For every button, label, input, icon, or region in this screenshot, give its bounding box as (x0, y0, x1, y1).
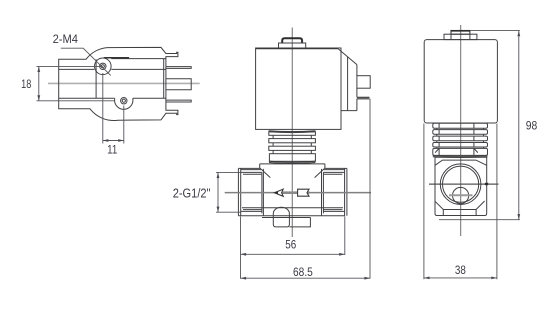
dimension 18 extension lines (37, 66, 115, 100)
interior body line (242, 207, 343, 209)
dimension 38 extension lines (424, 124, 497, 280)
gasket under coil (269, 131, 316, 133)
fin gap 3 (273, 150, 311, 153)
interior edge line upper (111, 58, 166, 60)
left port face (238, 168, 240, 215)
fin gap verticals 2 (437, 134, 484, 136)
body seam verticals (263, 169, 321, 216)
screw M4 no.1 (100, 63, 106, 69)
dimension 56 line (241, 253, 345, 255)
coil body (256, 48, 341, 129)
svg-text:2-M4: 2-M4 (53, 32, 79, 46)
dimension 68.5 extension line right (369, 99, 371, 279)
bottom chamfer trapezoid (435, 201, 485, 210)
svg-text:18: 18 (21, 77, 31, 91)
fin row 3 (433, 136, 488, 141)
manual override knob (282, 38, 302, 43)
valve body top edge (260, 164, 325, 169)
right port top double line (324, 168, 347, 169)
bottom bracket (289, 218, 310, 227)
port circle inner (443, 166, 479, 202)
dimension 11 line (103, 140, 124, 142)
dimension 2-G1/2 line (217, 172, 219, 212)
connector pin B (earth) (166, 79, 191, 90)
coil body (side) (424, 40, 497, 123)
cap knob (451, 31, 470, 35)
interior edge line lower (59, 97, 166, 99)
fin gap 1 (273, 135, 311, 138)
dimension 38 line (424, 277, 497, 279)
svg-text:68.5: 68.5 (293, 265, 313, 279)
centerline horizontal (48, 82, 200, 84)
dimension 18 line (38, 66, 40, 100)
connector right face (341, 65, 357, 111)
DIN connector chamfer roof (338, 49, 357, 65)
armature fin 2 (269, 139, 316, 143)
horizontal centerline (225, 192, 371, 194)
screw boss 2 (semicircular pocket) (115, 98, 133, 109)
valve body (side) (435, 157, 487, 215)
fin row 2 (433, 130, 488, 135)
fin row 4 (433, 143, 488, 148)
dimension 11 extension lines (103, 73, 124, 144)
armature fin 1 (269, 132, 316, 136)
gasket above body (269, 161, 315, 163)
bottom plug dome (273, 207, 289, 227)
body bottom second line (262, 217, 310, 219)
interior vertical edge (95, 59, 97, 98)
vertical centerline (460, 25, 462, 236)
left port top double line (238, 168, 261, 169)
svg-text:98: 98 (526, 119, 538, 133)
fin gap verticals 3 (437, 141, 484, 143)
right port thread lines (323, 172, 344, 211)
fin gap verticals 4 (437, 147, 484, 148)
port circle outer (440, 164, 481, 205)
interior edge line mid (59, 68, 166, 70)
fin gap 2 (273, 143, 311, 146)
connector pin C (166, 100, 191, 102)
fin row 1 (433, 123, 488, 128)
right port face (345, 168, 347, 215)
body bottom edge (238, 215, 345, 217)
horizontal centerline (429, 183, 499, 185)
dimension 2-G1/2 extension lines (216, 172, 241, 212)
dimension 98 line (518, 31, 520, 220)
hex nut row (433, 148, 488, 155)
knob flange (279, 43, 306, 48)
svg-text:56: 56 (285, 238, 296, 252)
cap flange (444, 34, 477, 39)
pilot hole circle (453, 187, 469, 203)
dimension 98 extension lines (439, 31, 520, 220)
coil top edge thick (256, 48, 339, 50)
coil housing outline (59, 47, 178, 120)
gasket wavy line (433, 156, 488, 158)
leader line 2-M4 (61, 48, 111, 75)
flow arrow shaft (279, 191, 310, 194)
svg-text:2-G1/2": 2-G1/2" (173, 186, 211, 200)
armature fin 3 (269, 146, 316, 150)
flow arrow solid tip (274, 191, 278, 194)
port depth verticals (262, 172, 324, 213)
dimension 56 extension lines (241, 217, 345, 279)
inner face line at right edge (163, 59, 165, 99)
connector tab plate (357, 97, 370, 99)
fin gap verticals 1 (437, 128, 484, 129)
svg-text:38: 38 (455, 263, 466, 277)
centerline tick (485, 183, 488, 185)
connector socket block (357, 76, 370, 89)
connector pin A (166, 67, 191, 69)
dimension 68.5 line (241, 277, 371, 279)
hex chamfer diagonals (261, 169, 324, 178)
screw M4 no.2 (121, 98, 127, 104)
svg-text:11: 11 (107, 143, 117, 157)
connector inner vertical (347, 57, 349, 111)
flow arrow tail (298, 189, 309, 196)
flow arrow head (274, 189, 283, 196)
left port thread lines (241, 172, 262, 211)
armature nut (269, 154, 315, 162)
slot line (449, 194, 473, 196)
vertical centerline (291, 28, 293, 238)
screw boss 1 (95, 58, 112, 75)
top chamfer trapezoid (435, 160, 487, 165)
